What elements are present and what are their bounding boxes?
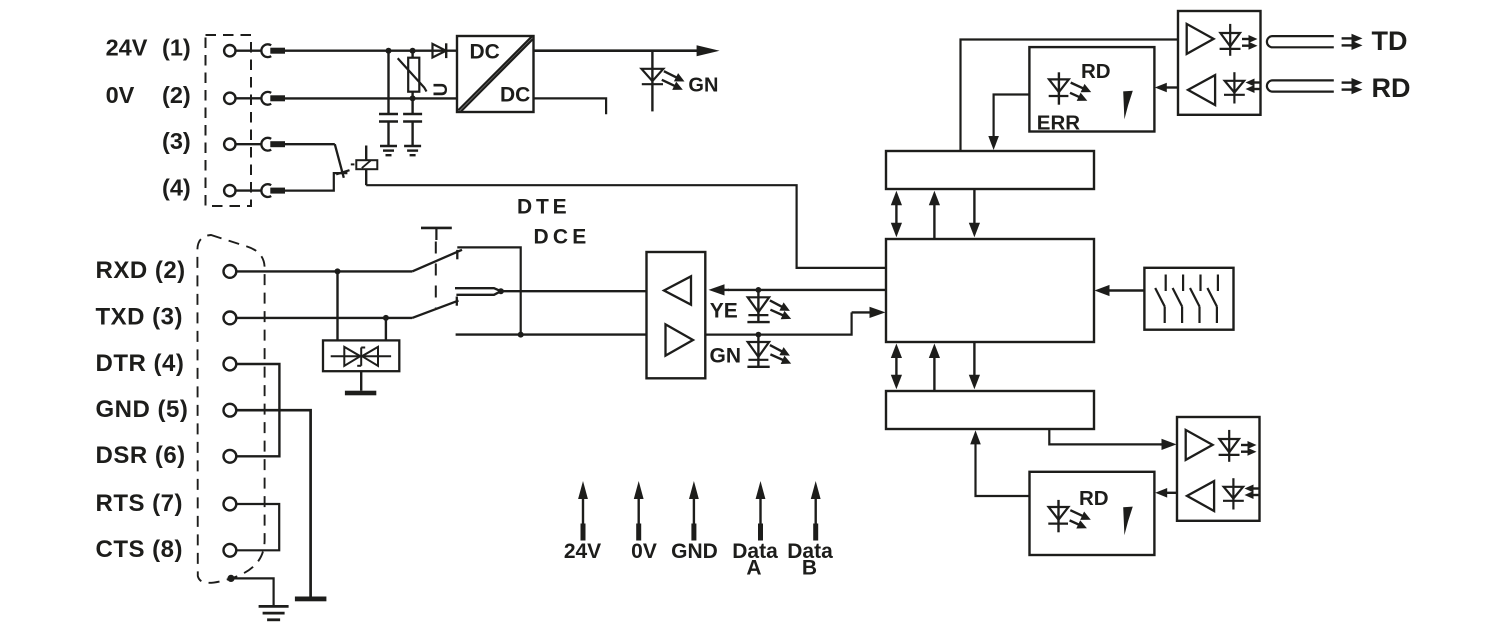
svg-text:DTR (4): DTR (4) xyxy=(96,350,185,377)
arrow RD b xyxy=(1342,85,1363,94)
label TD xyxy=(1372,26,1408,56)
svg-text:GND (5): GND (5) xyxy=(96,396,189,423)
wire RXD xyxy=(237,270,412,272)
svg-text:GN: GN xyxy=(710,345,742,368)
label ERR xyxy=(1037,112,1080,135)
ground shield xyxy=(259,606,289,619)
wire terminal 3 xyxy=(285,143,335,145)
wire RD to box B xyxy=(970,430,1029,496)
svg-text:U: U xyxy=(431,83,452,97)
svg-text:B: B xyxy=(802,557,817,580)
DC/DC converter U1 xyxy=(457,36,534,112)
TVS ground bar xyxy=(345,391,376,396)
capacitor C2 xyxy=(403,98,422,146)
TVS suppressor V2 xyxy=(323,271,399,390)
svg-text:RD: RD xyxy=(1372,73,1411,103)
label DTE xyxy=(517,196,570,219)
label CTS (8) xyxy=(96,536,184,563)
terminal block dashed outline xyxy=(206,35,252,206)
fork contact lower xyxy=(456,291,501,295)
wire TXD xyxy=(237,317,412,319)
wire lower line xyxy=(456,333,647,335)
svg-text:(1): (1) xyxy=(162,35,191,61)
label GND (5) xyxy=(96,396,189,423)
svg-text:DC: DC xyxy=(470,41,500,64)
ground C1 xyxy=(380,146,397,155)
wire DIP to controller xyxy=(1095,285,1145,296)
svg-text:TXD (3): TXD (3) xyxy=(96,304,184,331)
label RTS (7) xyxy=(96,490,184,517)
shield pin node xyxy=(227,575,234,582)
wire terminal 4 xyxy=(285,173,347,191)
svg-text:RTS (7): RTS (7) xyxy=(96,490,184,517)
label GN power xyxy=(688,75,718,97)
svg-text:DSR (6): DSR (6) xyxy=(96,442,186,469)
wire relay to controller xyxy=(366,185,886,268)
label DCE xyxy=(534,226,591,249)
node TXD-TVS xyxy=(383,315,389,321)
svg-text:A: A xyxy=(746,557,761,580)
svg-text:DC: DC xyxy=(500,84,530,107)
label RD err xyxy=(1081,60,1111,83)
wire 0V xyxy=(285,97,457,99)
terminal X1-4 xyxy=(224,184,285,197)
ground bar GND xyxy=(295,597,327,602)
switch S2a arm xyxy=(412,250,462,272)
switch S2 handle xyxy=(421,228,452,240)
switch S2 link xyxy=(435,242,437,309)
LED YE xyxy=(747,287,791,323)
diode V1 xyxy=(433,43,447,58)
wire ERR to box A xyxy=(988,95,1029,151)
label RD low xyxy=(1079,487,1109,510)
pin GND (5) xyxy=(224,404,237,417)
contact tick a xyxy=(456,250,458,259)
wire 0V out xyxy=(534,98,607,114)
blink symbol err xyxy=(1123,91,1133,120)
wire box B to module2 xyxy=(1049,429,1176,450)
node lower xyxy=(518,332,524,338)
wire GND pin5 xyxy=(237,410,311,597)
potential arrow 0V xyxy=(634,481,644,541)
svg-text:RXD (2): RXD (2) xyxy=(96,257,186,284)
wire YE line xyxy=(709,284,887,295)
pin RTS (7) xyxy=(224,498,237,511)
LED GN buffer xyxy=(747,332,791,368)
fiber optic module FO1 xyxy=(1178,11,1261,115)
node J3 xyxy=(410,95,416,101)
label RXD (2) xyxy=(96,257,186,284)
label YE xyxy=(710,300,738,323)
wire +V out xyxy=(534,45,720,56)
bus arrow up B xyxy=(929,344,940,392)
blink symbol low xyxy=(1123,507,1133,536)
pin DTR (4) xyxy=(224,358,237,371)
terminal X1-2 (0V) xyxy=(224,92,285,105)
status box ERR xyxy=(1029,47,1154,131)
svg-text:RD: RD xyxy=(1079,487,1109,510)
bus arrow bidir B xyxy=(891,344,902,390)
D-sub dashed outline xyxy=(197,235,264,583)
svg-text:0V: 0V xyxy=(631,540,657,563)
fork contact upper xyxy=(455,288,501,291)
label Data A xyxy=(732,540,778,580)
svg-text:ERR: ERR xyxy=(1037,112,1080,135)
label DSR (6) xyxy=(96,442,186,469)
label (3) xyxy=(162,128,191,154)
node RXD-TVS xyxy=(335,268,341,274)
svg-text:(2): (2) xyxy=(162,82,191,108)
terminal X1-1 (24V) xyxy=(224,44,285,57)
arrow RD a xyxy=(1342,78,1363,87)
wire 24V xyxy=(285,50,457,52)
label TXD (3) xyxy=(96,304,184,331)
svg-text:YE: YE xyxy=(710,300,738,323)
wire RTS-CTS jumper xyxy=(237,504,279,550)
bus arrow up A xyxy=(929,191,940,239)
label (2) xyxy=(162,82,191,108)
svg-text:DTE: DTE xyxy=(517,196,570,219)
svg-text:0V: 0V xyxy=(106,82,135,108)
bus arrow down B xyxy=(969,342,980,389)
svg-text:(4): (4) xyxy=(162,175,191,201)
arrow TD b xyxy=(1342,41,1363,50)
label 0V terminal xyxy=(106,82,135,108)
switch S2b arm xyxy=(412,301,458,318)
label (4) xyxy=(162,175,191,201)
mech link dash xyxy=(351,163,355,165)
wire fork to buffer xyxy=(501,290,647,292)
line driver U2 xyxy=(647,252,706,378)
label RD fiber xyxy=(1372,73,1411,103)
fiber cable RD xyxy=(1267,80,1334,91)
interface box B xyxy=(886,391,1094,429)
pin CTS (8) xyxy=(224,544,237,557)
relay coil K1 xyxy=(356,146,377,186)
DIP switch S3 xyxy=(1144,268,1233,330)
bus arrow bidir A xyxy=(891,191,902,237)
svg-text:GND: GND xyxy=(671,540,718,563)
contact tick b xyxy=(456,297,458,306)
LED GN power xyxy=(642,51,685,112)
wire module1 to ERR xyxy=(1155,83,1178,93)
svg-text:24V: 24V xyxy=(564,540,601,563)
wire shield xyxy=(231,578,274,606)
LED RD err xyxy=(1049,72,1092,104)
wire TX top xyxy=(961,40,1179,152)
svg-text:CTS (8): CTS (8) xyxy=(96,536,184,563)
potential arrow DataB xyxy=(811,481,821,541)
node fork xyxy=(498,288,504,294)
pin DSR (6) xyxy=(224,450,237,463)
fiber cable TD xyxy=(1267,36,1334,47)
wire DTR-DSR jumper xyxy=(237,364,280,456)
ground C2 xyxy=(404,146,421,155)
interface box A xyxy=(886,151,1094,189)
pin RXD (2) xyxy=(224,265,237,278)
wire module2 to RD xyxy=(1155,488,1177,498)
svg-text:24V: 24V xyxy=(106,35,148,61)
node J1 xyxy=(386,48,392,54)
bus arrow down A xyxy=(969,189,980,237)
svg-text:TD: TD xyxy=(1372,26,1408,56)
svg-text:RD: RD xyxy=(1081,60,1111,83)
pin TXD (3) xyxy=(224,312,237,325)
label 0V bottom xyxy=(631,540,657,563)
potential arrow DataA xyxy=(756,481,766,541)
svg-text:GN: GN xyxy=(688,75,718,97)
potential arrow GND xyxy=(689,481,699,541)
status box RD xyxy=(1030,472,1155,555)
svg-text:DCE: DCE xyxy=(534,226,591,249)
label GN buffer xyxy=(710,345,742,368)
terminal X1-3 xyxy=(224,138,285,151)
svg-text:(3): (3) xyxy=(162,128,191,154)
controller U3 xyxy=(886,239,1094,342)
label DTR (4) xyxy=(96,350,185,377)
switch S1 arm xyxy=(335,144,350,178)
capacitor C1 xyxy=(379,51,398,146)
label 24V bottom xyxy=(564,540,601,563)
fiber optic module FO2 xyxy=(1177,417,1260,521)
varistor RU1 xyxy=(398,51,427,99)
potential arrow 24V xyxy=(578,481,588,541)
arrow TD a xyxy=(1342,34,1363,43)
label GND bottom xyxy=(671,540,718,563)
label (1) xyxy=(162,35,191,61)
LED RD low xyxy=(1048,500,1091,532)
label 24V terminal xyxy=(106,35,148,61)
wire S2a upper contact xyxy=(457,247,520,334)
label U (varistor) xyxy=(431,83,452,97)
wire GN line xyxy=(705,307,885,335)
node J2 xyxy=(410,48,416,54)
label Data B xyxy=(787,540,833,580)
